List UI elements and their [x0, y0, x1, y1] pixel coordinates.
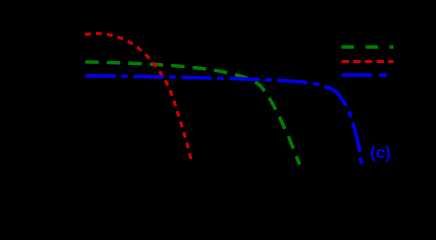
red dotted curve: [87, 34, 193, 166]
legend blue dash-dot sample: [342, 73, 394, 77]
blue dash-dot curve: [87, 76, 362, 166]
svg-text:(c): (c): [370, 143, 391, 162]
legend red dotted sample: [342, 60, 394, 63]
green dashed curve: [87, 62, 299, 163]
legend green dashed sample: [342, 45, 394, 48]
